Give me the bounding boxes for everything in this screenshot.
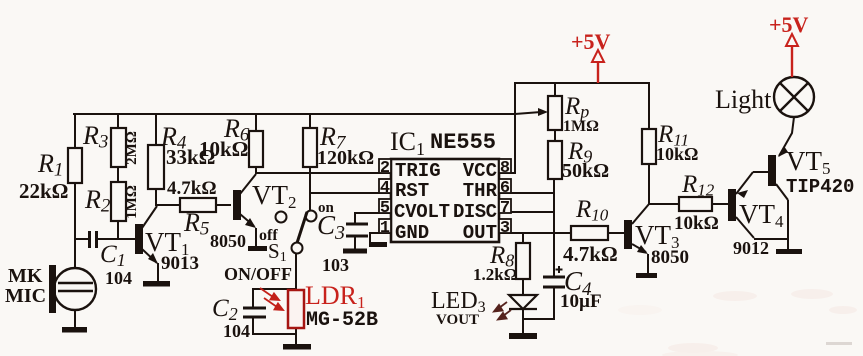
wire R11 bottom to VT3 collector node <box>648 164 650 204</box>
svg-text:10µF: 10µF <box>560 291 602 312</box>
potentiometer Rp <box>548 96 562 130</box>
svg-text:1: 1 <box>380 219 390 238</box>
svg-text:6: 6 <box>500 179 510 198</box>
wire R8 bottom to LED <box>522 279 524 295</box>
svg-text:MK: MK <box>8 265 43 287</box>
svg-text:GND: GND <box>395 222 429 244</box>
transistor VT1 <box>135 206 158 281</box>
svg-text:10kΩ: 10kΩ <box>674 213 719 234</box>
svg-text:104: 104 <box>105 268 132 288</box>
wire mic to C1 left <box>75 238 88 240</box>
wire Rp-R9 link <box>554 130 556 141</box>
svg-text:50kΩ: 50kΩ <box>562 160 609 182</box>
transistor VT5 <box>753 117 794 250</box>
capacitor C1 <box>90 231 97 248</box>
wire LED cathode to ground <box>522 309 524 334</box>
faint scan smudges <box>618 289 857 356</box>
svg-text:104: 104 <box>223 321 250 341</box>
svg-text:9012: 9012 <box>733 238 769 258</box>
capacitor C3 <box>346 224 368 250</box>
resistor R4 <box>148 145 164 189</box>
wire C4 bottom stem <box>553 287 555 319</box>
svg-text:2: 2 <box>380 159 390 178</box>
wire pin2 TRIG <box>256 172 391 174</box>
svg-text:+5V: +5V <box>769 12 809 37</box>
svg-text:CVOLT: CVOLT <box>394 201 450 223</box>
wire pin5 CVOLT <box>355 212 391 214</box>
wire R4 top lead <box>155 114 157 145</box>
svg-text:4.7kΩ: 4.7kΩ <box>563 242 618 266</box>
power +5V left <box>592 50 604 83</box>
wire pin1 ground stem <box>369 233 371 243</box>
ground LDR1/C2 <box>283 344 311 350</box>
svg-text:1.2kΩ: 1.2kΩ <box>473 265 517 284</box>
svg-text:MIC: MIC <box>5 285 46 307</box>
svg-text:9013: 9013 <box>161 253 199 274</box>
ground VT3 emitter <box>636 273 657 278</box>
transistor VT4 <box>728 172 788 239</box>
wire S1 common down to LDR <box>295 253 297 290</box>
svg-text:3: 3 <box>500 219 510 238</box>
wire R6 bottom lead <box>255 167 257 173</box>
svg-text:5: 5 <box>380 199 390 218</box>
wire R10 left <box>608 232 626 234</box>
pin 8 stub <box>499 159 511 173</box>
ground VT4/VT5 collector <box>776 249 802 254</box>
wire R3 top lead <box>117 114 119 128</box>
wire R5 to VT2 base <box>216 204 230 206</box>
svg-text:THR: THR <box>463 180 498 202</box>
svg-text:4: 4 <box>380 179 390 198</box>
switch S1 <box>276 211 317 254</box>
wire R12 to VT4 base <box>712 203 729 205</box>
wire R6 top lead <box>255 114 257 131</box>
wire pin3 OUT <box>499 232 571 234</box>
resistor R10 <box>571 226 608 240</box>
transistor VT3 <box>624 204 649 273</box>
wire C2 bottom to LDR bottom <box>253 333 296 335</box>
potentiometer Rp wiper arrow <box>515 108 548 116</box>
pin 3 stub <box>499 219 511 233</box>
wire R9 bottom to C4 top <box>553 179 555 276</box>
svg-text:1MΩ: 1MΩ <box>563 118 599 135</box>
svg-text:22kΩ: 22kΩ <box>19 179 69 203</box>
ground microphone <box>62 327 87 333</box>
wire C4 bottom link <box>523 318 554 320</box>
svg-text:LDR1: LDR1 <box>305 281 366 312</box>
wire LDR top to C2 top <box>253 288 296 290</box>
faint gray dash <box>826 342 852 345</box>
pin 2 stub <box>379 159 391 173</box>
wire R4 bottom lead <box>155 189 157 205</box>
svg-text:VCC: VCC <box>463 160 497 182</box>
wire pin1 GND <box>370 232 391 234</box>
wire C2 top stem <box>252 289 254 307</box>
resistor R5 <box>180 198 216 212</box>
wire pin6 THR <box>499 192 554 194</box>
capacitor C4 electrolytic <box>543 266 565 287</box>
wire LDR bottom stem <box>295 328 297 345</box>
wire mic ground stem <box>74 310 76 328</box>
svg-text:1MΩ: 1MΩ <box>124 185 140 219</box>
svg-text:120kΩ: 120kΩ <box>317 147 374 169</box>
pin 6 stub <box>499 179 511 193</box>
svg-text:+5V: +5V <box>571 29 611 54</box>
wire C1 right to VT1 base <box>98 238 135 240</box>
LED3 light arrows <box>494 302 511 320</box>
resistor R2 <box>111 182 126 221</box>
svg-text:RST: RST <box>395 180 429 202</box>
IC U1 NE555 body <box>391 159 499 242</box>
wire R8 top lead <box>522 233 524 243</box>
wire R7 bottom lead to S1 on contact <box>309 167 311 211</box>
svg-text:VOUT: VOUT <box>436 312 479 328</box>
resistor R3 <box>111 128 126 167</box>
svg-text:TIP420: TIP420 <box>786 176 854 198</box>
svg-text:10kΩ: 10kΩ <box>656 144 698 164</box>
wire Rp top lead <box>554 83 556 96</box>
svg-text:8050: 8050 <box>210 231 246 251</box>
photoresistor LDR1 <box>288 290 304 328</box>
wire C2 bottom stem <box>252 317 254 334</box>
resistor R7 <box>303 128 317 167</box>
resistor R11 <box>642 129 656 164</box>
wire pin4 RST <box>310 192 391 194</box>
svg-text:ON/OFF: ON/OFF <box>224 264 292 284</box>
pin 4 stub <box>379 179 391 193</box>
resistor R1 <box>68 148 82 183</box>
ground VT1 emitter <box>143 281 170 287</box>
resistor R9 <box>548 141 562 179</box>
svg-text:MG-52B: MG-52B <box>306 309 378 332</box>
resistor R6 <box>249 131 263 167</box>
wire R7 top lead <box>309 114 311 128</box>
svg-text:2MΩ: 2MΩ <box>124 131 140 165</box>
LDR1 light arrows red <box>260 288 283 310</box>
wire R2 bottom lead <box>117 221 119 239</box>
wire VT3 node to R12 <box>649 203 679 205</box>
wire pin7 DISC <box>499 211 554 213</box>
LED LED3 <box>509 295 537 309</box>
resistor R12 <box>679 197 712 211</box>
svg-text:Light: Light <box>715 85 772 114</box>
pin 1 stub <box>379 219 391 233</box>
wire top-left supply rail <box>74 113 515 115</box>
wire R1 top lead <box>74 114 76 148</box>
svg-text:NE555: NE555 <box>430 130 496 155</box>
wire R3-R2 link <box>117 167 119 182</box>
svg-text:8: 8 <box>500 159 510 178</box>
ground C3 <box>343 249 367 254</box>
wire pin8 VCC <box>499 172 515 174</box>
ground LED3 <box>509 333 537 339</box>
power +5V right <box>786 34 798 77</box>
ground VT2 emitter <box>248 246 267 251</box>
wire +5V rail right <box>515 82 649 84</box>
resistor R8 <box>516 243 530 279</box>
svg-text:4.7kΩ: 4.7kΩ <box>167 178 217 199</box>
pin 5 stub <box>379 199 391 213</box>
ground pin1 <box>369 242 387 247</box>
svg-text:DISC: DISC <box>453 201 497 223</box>
wire R4 node to R5 <box>156 204 180 206</box>
wire VCC vertical to pin8 <box>514 83 516 173</box>
wire C3 top lead <box>354 213 356 223</box>
svg-text:OUT: OUT <box>463 222 497 244</box>
transistor VT2 <box>233 174 256 246</box>
wire R1 bottom lead to mic node <box>74 183 76 268</box>
wire R11 top lead <box>648 83 650 129</box>
pin 7 stub <box>499 199 511 213</box>
svg-text:TRIG: TRIG <box>395 160 441 182</box>
svg-text:7: 7 <box>500 199 510 218</box>
svg-text:103: 103 <box>322 255 349 275</box>
lamp Light <box>774 77 814 117</box>
svg-text:8050: 8050 <box>651 247 689 268</box>
capacitor C2 <box>243 308 266 317</box>
microphone MK electret <box>49 265 96 313</box>
svg-text:10kΩ: 10kΩ <box>199 137 249 161</box>
